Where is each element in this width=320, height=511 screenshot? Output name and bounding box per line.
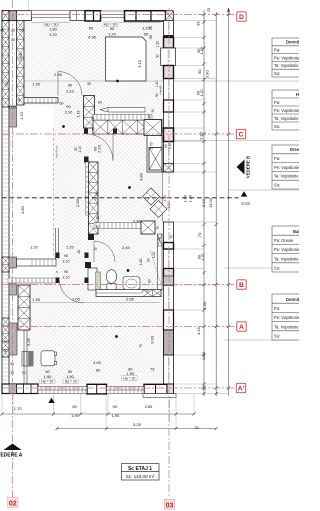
svg-text:B: B xyxy=(239,282,244,289)
svg-text:30: 30 xyxy=(10,371,14,375)
svg-text:25: 25 xyxy=(149,26,153,30)
svg-text:2.20: 2.20 xyxy=(198,131,203,140)
svg-text:A': A' xyxy=(238,386,245,393)
svg-text:1.20: 1.20 xyxy=(189,195,193,202)
svg-text:A: A xyxy=(239,324,244,331)
dimension texts and ticks xyxy=(0,8,230,430)
svg-text:70: 70 xyxy=(22,371,26,375)
svg-text:4.80: 4.80 xyxy=(20,205,25,214)
svg-text:Ta: Vopsitorie: Ta: Vopsitorie xyxy=(274,256,299,261)
door arcs xyxy=(58,72,115,304)
svg-text:VEDERE B: VEDERE B xyxy=(246,156,251,178)
svg-text:Pe: Vopsitorie: Pe: Vopsitorie xyxy=(274,108,299,113)
svg-text:2.40: 2.40 xyxy=(122,245,131,250)
svg-text:Hp = 20: Hp = 20 xyxy=(41,380,53,384)
svg-text:30: 30 xyxy=(11,38,15,42)
svg-text:15: 15 xyxy=(148,115,152,119)
section line S-02 xyxy=(2,191,251,206)
svg-text:Sc ETAJ 1: Sc ETAJ 1 xyxy=(128,466,152,472)
svg-text:30: 30 xyxy=(151,109,155,113)
shaft diamonds xyxy=(143,188,168,218)
svg-text:50: 50 xyxy=(197,69,202,74)
svg-text:75: 75 xyxy=(150,367,155,372)
floor field xyxy=(24,21,164,385)
black dots xyxy=(62,80,131,338)
right vertical wall W_v2 xyxy=(147,120,162,173)
svg-text:75: 75 xyxy=(139,344,143,348)
svg-text:03: 03 xyxy=(166,502,174,509)
svg-text:70: 70 xyxy=(197,232,202,237)
svg-text:1.15: 1.15 xyxy=(77,111,81,118)
svg-text:90: 90 xyxy=(68,83,73,88)
svg-text:55: 55 xyxy=(92,127,96,131)
table Dormitor 2 xyxy=(272,294,312,340)
bath top band xyxy=(94,223,141,229)
svg-text:90: 90 xyxy=(72,404,77,409)
svg-text:1.20: 1.20 xyxy=(201,254,205,261)
wall stair/room xyxy=(18,285,30,330)
svg-text:90: 90 xyxy=(147,258,151,262)
bottom exterior dims xyxy=(2,414,216,429)
svg-text:2.10: 2.10 xyxy=(65,110,74,115)
sink xyxy=(123,277,140,290)
svg-text:90: 90 xyxy=(156,54,160,58)
svg-text:Su:: Su: xyxy=(274,334,280,339)
bottom wall xyxy=(2,384,38,394)
svg-text:Ta: Vopsitorie: Ta: Vopsitorie xyxy=(274,63,299,68)
svg-text:3.15: 3.15 xyxy=(137,59,142,68)
svg-text:1.90: 1.90 xyxy=(126,371,135,376)
leader lines from rooms to finish tables xyxy=(24,81,299,340)
svg-text:Pa:: Pa: xyxy=(274,100,280,105)
axis markers xyxy=(8,12,247,510)
svg-text:Hp = 20: Hp = 20 xyxy=(65,380,77,384)
svg-text:30: 30 xyxy=(4,340,8,344)
svg-text:S-02: S-02 xyxy=(241,201,251,206)
svg-text:30: 30 xyxy=(10,362,14,366)
door jambs xyxy=(56,253,89,284)
svg-text:Su:: Su: xyxy=(274,266,280,271)
left inner wall xyxy=(17,20,25,105)
svg-text:2.55: 2.55 xyxy=(126,297,135,302)
svg-text:40: 40 xyxy=(0,29,4,33)
svg-text:C: C xyxy=(239,131,244,138)
svg-text:15: 15 xyxy=(17,98,21,102)
table Dressing xyxy=(272,145,312,189)
svg-text:3.80: 3.80 xyxy=(139,172,144,181)
svg-text:Dormitor: Dormitor xyxy=(286,297,299,302)
svg-text:1.90: 1.90 xyxy=(112,413,121,418)
green door leaf xyxy=(96,272,100,290)
svg-text:5.10: 5.10 xyxy=(201,198,206,207)
gray piers xyxy=(9,106,17,355)
svg-text:60: 60 xyxy=(98,101,102,105)
table Dormitor 1 xyxy=(272,38,312,77)
svg-text:90: 90 xyxy=(66,104,71,109)
left exterior wall xyxy=(2,11,9,394)
svg-text:1.75: 1.75 xyxy=(150,143,154,150)
svg-text:Su:: Su: xyxy=(274,124,280,129)
svg-text:Sc: 143.00 m²: Sc: 143.00 m² xyxy=(126,474,155,479)
svg-text:70: 70 xyxy=(170,235,174,239)
svg-text:25: 25 xyxy=(207,8,211,12)
stair parapets xyxy=(17,259,57,266)
svg-text:Pa:: Pa: xyxy=(274,48,280,53)
svg-text:1.80: 1.80 xyxy=(184,195,188,202)
svg-text:3.90: 3.90 xyxy=(205,70,210,79)
svg-text:15: 15 xyxy=(96,216,100,220)
svg-text:VEDERE A: VEDERE A xyxy=(0,453,23,459)
svg-text:60: 60 xyxy=(60,102,64,106)
svg-text:15: 15 xyxy=(91,116,95,120)
svg-text:Hsp=90cm: Hsp=90cm xyxy=(55,146,59,158)
furniture and fixtures xyxy=(22,37,167,366)
svg-text:1.20: 1.20 xyxy=(66,245,75,250)
svg-text:1.35: 1.35 xyxy=(32,82,41,87)
svg-text:Pe: Vopsitorie: Pe: Vopsitorie xyxy=(274,315,299,320)
svg-text:15 30: 15 30 xyxy=(141,289,149,293)
svg-text:90: 90 xyxy=(128,367,133,372)
svg-text:2.10: 2.10 xyxy=(97,144,102,153)
svg-text:1.20: 1.20 xyxy=(152,252,156,258)
ticks right chains xyxy=(1,13,231,430)
title table xyxy=(122,464,160,481)
right exterior wall xyxy=(164,20,174,172)
heater xyxy=(22,352,33,367)
svg-text:1.70: 1.70 xyxy=(14,406,23,411)
svg-text:10: 10 xyxy=(85,262,89,266)
svg-text:60: 60 xyxy=(148,279,152,283)
svg-text:1.20: 1.20 xyxy=(108,32,117,37)
svg-text:50: 50 xyxy=(89,26,94,31)
svg-text:Pe: Vopsitorie: Pe: Vopsitorie xyxy=(274,55,299,60)
hall door 2 to bottom room xyxy=(59,278,84,303)
svg-text:Hp=90: Hp=90 xyxy=(159,85,163,94)
svg-text:3.00: 3.00 xyxy=(150,335,155,344)
svg-text:Pa:: Pa: xyxy=(274,306,280,311)
room finish tables xyxy=(272,38,312,340)
svg-text:90: 90 xyxy=(112,404,117,409)
vedere B xyxy=(237,156,251,178)
entry arrow xyxy=(48,398,54,404)
svg-text:1.20: 1.20 xyxy=(19,111,24,120)
svg-text:02: 02 xyxy=(9,500,17,507)
svg-text:2.10: 2.10 xyxy=(66,89,75,94)
stairwell void xyxy=(17,106,54,279)
svg-text:75: 75 xyxy=(156,226,160,230)
svg-text:Baie: Baie xyxy=(293,229,299,234)
sill band above W_h2 xyxy=(93,115,152,121)
D1 top-left room xyxy=(57,72,59,96)
svg-text:4.95: 4.95 xyxy=(93,360,102,365)
svg-text:1.90: 1.90 xyxy=(71,413,80,418)
svg-text:30: 30 xyxy=(11,29,15,33)
red axis lines xyxy=(2,0,237,498)
svg-text:Su:: Su: xyxy=(274,182,280,187)
svg-text:10: 10 xyxy=(96,225,100,229)
svg-text:1.20: 1.20 xyxy=(30,245,39,250)
svg-text:1.80: 1.80 xyxy=(139,259,143,266)
svg-text:10: 10 xyxy=(85,278,89,282)
svg-text:30: 30 xyxy=(157,237,161,241)
svg-text:Ta: Vopsitorie: Ta: Vopsitorie xyxy=(274,116,299,121)
svg-text:1.90: 1.90 xyxy=(66,374,75,379)
svg-text:15: 15 xyxy=(93,247,97,251)
svg-text:Su:: Su: xyxy=(274,71,280,76)
hall wall W_v3 xyxy=(89,162,99,234)
svg-text:2.10: 2.10 xyxy=(168,143,172,149)
svg-text:1.50: 1.50 xyxy=(202,301,207,310)
bath bottom wall xyxy=(96,290,161,297)
top window dims xyxy=(32,22,161,24)
svg-text:Dressing: Dressing xyxy=(290,147,299,152)
svg-text:4.15: 4.15 xyxy=(196,326,201,335)
toilet xyxy=(106,270,116,290)
bathroom door xyxy=(93,241,95,262)
door in W_h2 xyxy=(112,134,114,161)
bed xyxy=(106,37,147,81)
svg-text:Hol: Hol xyxy=(296,92,299,97)
parapet dashed line xyxy=(53,128,55,258)
table Baie xyxy=(272,226,312,272)
svg-text:4.95: 4.95 xyxy=(88,35,97,40)
beam object xyxy=(108,108,145,113)
svg-text:2.60: 2.60 xyxy=(75,198,80,207)
svg-text:90: 90 xyxy=(64,270,68,274)
wall under top-left room xyxy=(24,98,58,104)
svg-text:80: 80 xyxy=(96,368,101,373)
svg-text:1.20: 1.20 xyxy=(156,41,160,48)
svg-text:Ta: Vopsitorie: Ta: Vopsitorie xyxy=(274,324,299,329)
interior partitions and doors xyxy=(8,72,163,385)
svg-text:Ta: Vopsitorie: Ta: Vopsitorie xyxy=(274,174,299,179)
svg-text:1.35: 1.35 xyxy=(32,297,41,302)
big middle wall W_h2 xyxy=(93,120,152,134)
svg-text:Hp = 20: Hp = 20 xyxy=(123,376,135,380)
svg-text:D: D xyxy=(239,14,244,21)
vedere A xyxy=(0,444,23,459)
svg-text:90: 90 xyxy=(74,147,78,151)
svg-text:Pe: Vopsitorie: Pe: Vopsitorie xyxy=(274,165,299,170)
svg-text:90: 90 xyxy=(110,26,115,31)
svg-text:1.20: 1.20 xyxy=(49,32,58,37)
svg-text:90: 90 xyxy=(149,35,153,39)
svg-text:50: 50 xyxy=(20,29,24,33)
svg-text:Pa:: Pa: xyxy=(274,156,280,161)
svg-text:1.90: 1.90 xyxy=(44,374,53,379)
svg-text:2.55: 2.55 xyxy=(18,52,23,61)
svg-text:Pe: Vopsitorie: Pe: Vopsitorie xyxy=(274,247,299,252)
y302 dim row xyxy=(30,302,160,304)
svg-text:2.10: 2.10 xyxy=(63,276,70,280)
svg-text:1.05: 1.05 xyxy=(72,297,81,302)
bath right wall xyxy=(158,234,163,290)
svg-text:5.25: 5.25 xyxy=(133,422,142,427)
svg-text:30: 30 xyxy=(5,82,9,86)
svg-text:2.10: 2.10 xyxy=(63,260,70,264)
svg-text:48: 48 xyxy=(77,250,81,254)
svg-text:2.85: 2.85 xyxy=(145,404,154,409)
svg-text:25: 25 xyxy=(195,426,199,430)
svg-text:90: 90 xyxy=(64,254,68,258)
svg-text:13.00: 13.00 xyxy=(208,197,213,208)
svg-text:Pa: Gresie: Pa: Gresie xyxy=(274,238,294,243)
svg-text:30: 30 xyxy=(87,82,91,86)
top wall xyxy=(2,11,32,21)
svg-text:30: 30 xyxy=(4,349,8,353)
svg-text:Dormitor: Dormitor xyxy=(286,40,299,45)
svg-text:2.40: 2.40 xyxy=(133,219,142,224)
table Hol xyxy=(272,90,312,130)
svg-text:2.55: 2.55 xyxy=(54,72,63,77)
svg-text:1.20: 1.20 xyxy=(200,90,204,97)
chair xyxy=(41,351,57,366)
pier right of door xyxy=(84,96,95,129)
svg-text:95: 95 xyxy=(196,21,201,26)
svg-text:3.35: 3.35 xyxy=(26,337,31,346)
svg-text:2.35: 2.35 xyxy=(94,191,99,200)
hall divider x55 xyxy=(55,228,57,259)
svg-text:1.80: 1.80 xyxy=(49,27,58,32)
svg-text:2.10: 2.10 xyxy=(78,146,82,153)
extension lines and dimension chain verticals xyxy=(2,0,229,429)
